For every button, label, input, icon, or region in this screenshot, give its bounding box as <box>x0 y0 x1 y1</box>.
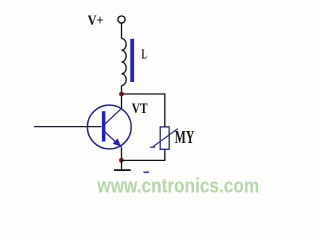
svg-text:V+: V+ <box>88 13 104 29</box>
svg-text:MY: MY <box>175 127 195 147</box>
svg-text:www.cntronics.com: www.cntronics.com <box>96 176 259 198</box>
svg-text:VT: VT <box>132 101 148 117</box>
svg-text:L: L <box>142 46 147 61</box>
